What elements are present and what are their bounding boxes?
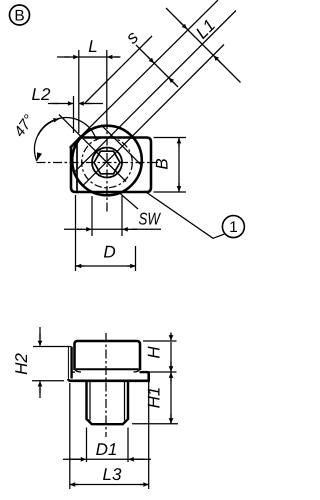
stud thread root lines [89,381,91,421]
lip inner face [70,347,72,379]
dimension L [57,50,121,133]
svg-text:47°: 47° [11,112,38,140]
svg-text:H: H [145,346,164,359]
svg-text:SW: SW [139,210,162,229]
item balloon 1 with leader [145,191,245,238]
dimension B [154,138,187,193]
view label circle B [10,5,30,25]
lip inner edge line [76,141,78,193]
47deg diagonal axis line [59,115,126,182]
dimension SW with leader [64,193,161,237]
svg-text:L2: L2 [32,85,51,104]
chamfer extension line [70,0,219,148]
lip outer thin line [67,347,69,380]
head outline [75,341,141,370]
dimension H1 [132,372,178,424]
vertical centerline [106,120,108,212]
horizontal centerline [37,162,159,164]
svg-text:s: s [122,27,143,48]
dimension H [141,333,177,373]
hexagon [94,151,120,174]
boss circle [72,126,142,196]
dimension D1 [63,428,151,463]
stud outer lines with chamfered end [87,381,129,424]
lip top edge [68,346,71,348]
svg-text:L3: L3 [103,465,122,484]
dimension H2 [32,327,68,398]
svg-text:D: D [103,243,115,262]
dimension s [136,45,178,87]
slot bottom line in head [76,368,139,370]
plate outline [71,138,151,193]
plate top surface segments [72,371,75,373]
head corner fillet right [134,368,141,372]
dimension L2 [48,96,103,133]
svg-text:H2: H2 [12,353,31,375]
slot center diagonal [83,45,224,186]
svg-text:B: B [153,158,172,169]
slot edge line 1 [74,11,236,173]
wedge step edge chord [101,125,142,166]
dimension L1 [166,8,241,83]
svg-text:L: L [88,37,97,56]
vertical centerline front [105,333,107,437]
head corner fillet left [75,368,82,372]
plate bottom and right end [68,372,148,381]
thread dashed circle [82,137,133,188]
svg-text:B: B [14,8,24,25]
dimension L3 [70,382,149,489]
svg-text:D1: D1 [96,440,118,459]
47deg reference line [85,36,152,103]
svg-text:H1: H1 [145,387,164,409]
socket circle [92,148,122,178]
dimension 47deg arc [35,118,97,161]
svg-text:1: 1 [229,219,238,236]
dimension D [76,195,136,271]
